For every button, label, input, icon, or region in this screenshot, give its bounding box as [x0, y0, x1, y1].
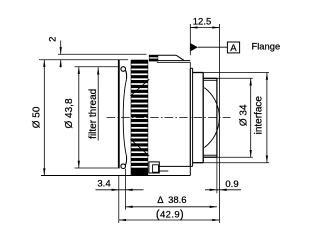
dim O50 line [43, 60, 45, 176]
rear cell inner rim bottom [203, 154, 217, 156]
svg-text:Ø 34: Ø 34 [238, 104, 249, 126]
interface cylinder bottom edge + ext [193, 162, 204, 164]
svg-text:12.5: 12.5 [193, 16, 212, 27]
bottom inner step line + flange plate bottom [158, 165, 193, 167]
svg-text:(42.9): (42.9) [156, 209, 184, 221]
cone bottom edge 1 [157, 60, 190, 62]
step vertical (full height) [202, 73, 204, 163]
dim 42.9 line [119, 219, 220, 221]
bottom thumbscrew boss [149, 162, 159, 173]
dim 2 lines [60, 41, 62, 55]
front lens element surface arc [123, 79, 126, 156]
rear surface edge across ring, bottom diagonal [130, 139, 149, 156]
dim interface line [266, 73, 268, 163]
knurled focus ring [131, 60, 149, 176]
dim O34 line [250, 78, 252, 157]
thumbscrew inner square [153, 165, 159, 172]
front face (filter rim) [118, 60, 120, 168]
ext line O43.8 top [75, 66, 120, 68]
ext line O50 top [39, 59, 128, 61]
image plane ext line [219, 24, 221, 223]
lock ring segment (raised ring) [149, 55, 158, 62]
flange plate top nub [190, 67, 192, 69]
datum plane / flange left edge line [189, 24, 191, 55]
ext line front face down [118, 176, 120, 224]
cone bottom edge 2 [157, 61, 190, 63]
dim 3.4 line [96, 189, 144, 191]
filter thread curl bottom [121, 164, 126, 169]
datum triangle [191, 43, 198, 51]
datum box A [227, 42, 239, 53]
filter thread leader line [97, 67, 99, 140]
flange plate right edge [192, 68, 194, 166]
ext line O43.8 bottom [75, 167, 120, 169]
svg-text:Ø 43,8: Ø 43,8 [64, 98, 75, 128]
cone section top edge [158, 54, 177, 56]
dim O43.8 line [78, 67, 80, 168]
rear lens surface arc [204, 88, 219, 148]
svg-text:2: 2 [48, 37, 59, 42]
svg-text:Δ 38.6: Δ 38.6 [157, 195, 186, 206]
svg-text:3.4: 3.4 [97, 178, 110, 189]
centerline [107, 117, 231, 119]
dim 0.9 line [205, 189, 241, 191]
O34 cylinder top edge + ext [203, 77, 217, 79]
svg-text:0.9: 0.9 [225, 179, 238, 190]
rear cell inner rim top [203, 79, 217, 81]
svg-text:filter thread: filter thread [88, 89, 99, 139]
filter thread curl top [121, 67, 126, 72]
leader to datum box [198, 46, 228, 48]
ext line for 2, top [58, 53, 147, 55]
thumbscrew stub pin [159, 170, 168, 172]
O34 cylinder bottom edge + ext [203, 156, 217, 158]
interface cylinder top edge + ext [193, 72, 204, 74]
svg-text:interface: interface [254, 96, 265, 135]
dim 38.6 line [125, 206, 216, 208]
dim 12.5 line [190, 27, 219, 29]
rear cell rim vertical + 0.9 ext [216, 78, 218, 157]
body bottom silhouette to flange [41, 175, 190, 177]
cone slant edge [176, 55, 184, 60]
rear surface edge across ring, top diagonal [130, 79, 149, 96]
svg-text:A: A [230, 43, 237, 54]
svg-text:Ø 50: Ø 50 [32, 106, 43, 128]
ext line thread end down [124, 169, 126, 210]
svg-text:Flange: Flange [252, 41, 281, 52]
